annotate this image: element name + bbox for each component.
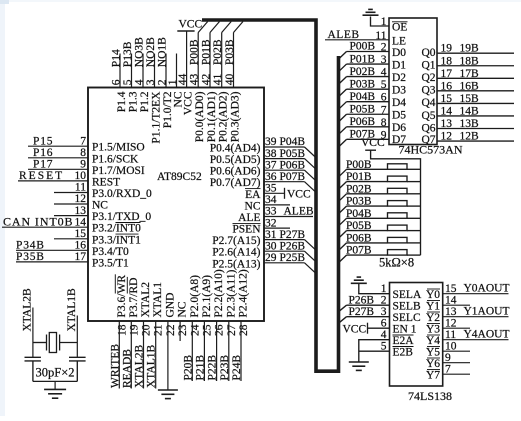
wire U1 pin 17: [16, 261, 88, 263]
bus entry P04B: [305, 147, 316, 158]
svg-text:Y4AOUT: Y4AOUT: [464, 329, 510, 341]
ground at U3 E2A E2B: [349, 362, 369, 370]
svg-text:P03B: P03B: [350, 78, 376, 90]
svg-text:P02B: P02B: [346, 183, 372, 195]
svg-text:6: 6: [111, 79, 123, 85]
svg-text:P27B: P27B: [280, 229, 306, 241]
capacitor C1 30pF: [25, 357, 41, 381]
svg-text:12: 12: [441, 131, 453, 143]
svg-text:NC: NC: [245, 200, 261, 212]
resistor R8 row P07B: [339, 245, 420, 263]
svg-text:P17: P17: [33, 159, 53, 171]
bus entry P26B: [305, 251, 316, 262]
svg-text:P06B: P06B: [280, 159, 306, 171]
svg-text:SELB: SELB: [393, 301, 421, 313]
wire U3 output Y1: [443, 304, 470, 306]
overline Y4: [427, 334, 440, 336]
wire U2 D2 input P02B: [339, 66, 389, 84]
overline Y0: [427, 288, 440, 290]
svg-text:GND: GND: [164, 293, 176, 318]
ground at U2 OE: [363, 9, 379, 15]
wire U1 bottom pin 26: [216, 321, 218, 381]
svg-text:P1.4: P1.4: [116, 91, 128, 112]
svg-text:VCC: VCC: [287, 189, 311, 201]
VCC T-bar resistor rail: [365, 149, 376, 151]
svg-text:P1.1/T2EX: P1.1/T2EX: [151, 91, 163, 144]
wire U1 pin 44 VCC: [186, 31, 188, 88]
svg-text:5: 5: [381, 79, 387, 91]
svg-text:D0: D0: [392, 47, 406, 59]
svg-text:P34B: P34B: [16, 240, 45, 252]
wire U1 top pin 4: [142, 54, 144, 88]
svg-text:P03B: P03B: [346, 196, 372, 208]
svg-text:SELC: SELC: [393, 312, 421, 324]
svg-text:Y5: Y5: [426, 347, 440, 359]
wire XTAL1B down: [76, 316, 78, 358]
svg-text:D2: D2: [392, 72, 406, 84]
overline Y6: [427, 357, 440, 359]
svg-text:ALEB: ALEB: [284, 206, 314, 218]
svg-text:P0.2(AD2): P0.2(AD2): [218, 91, 230, 142]
svg-text:RESET: RESET: [19, 170, 64, 182]
svg-text:13: 13: [441, 118, 453, 130]
svg-text:Q0: Q0: [421, 47, 435, 59]
svg-text:17: 17: [441, 68, 453, 80]
svg-text:VCC: VCC: [183, 91, 195, 115]
svg-text:D3: D3: [392, 85, 406, 97]
svg-text:Y2: Y2: [426, 312, 440, 324]
svg-text:22: 22: [165, 324, 177, 336]
wire U1 top pin 3: [154, 54, 156, 88]
bus entry P07B: [305, 182, 316, 193]
svg-text:P2.3(A11): P2.3(A11): [225, 270, 237, 318]
svg-text:16: 16: [441, 80, 453, 92]
svg-text:P0.7(AD7): P0.7(AD7): [210, 177, 261, 189]
svg-text:14B: 14B: [460, 105, 480, 117]
wire U1 pin 15: [54, 238, 88, 240]
svg-text:SELA: SELA: [393, 289, 422, 301]
svg-text:P2.1(A9): P2.1(A9): [201, 275, 213, 318]
svg-text:P0.3(AD3): P0.3(AD3): [230, 91, 242, 142]
resistor R2 row P01B: [339, 171, 420, 189]
svg-text:P3.5/T1: P3.5/T1: [92, 257, 129, 269]
svg-text:Q1: Q1: [421, 60, 435, 72]
svg-text:3: 3: [145, 79, 157, 85]
svg-text:20: 20: [141, 324, 153, 336]
svg-text:P22B: P22B: [207, 355, 219, 381]
svg-text:P00B: P00B: [346, 159, 372, 171]
svg-text:Y0AOUT: Y0AOUT: [464, 283, 510, 295]
svg-text:2: 2: [381, 42, 387, 54]
svg-text:P13B: P13B: [122, 41, 134, 67]
corner mark: [0, 0, 9, 4]
VCC T-bar top: [177, 30, 194, 32]
svg-text:9: 9: [445, 352, 451, 364]
svg-text:9: 9: [80, 159, 86, 171]
svg-text:CAN INT0B: CAN INT0B: [3, 214, 73, 228]
resistor network VCC rail: [371, 150, 421, 255]
resistor R4 row P03B: [339, 196, 420, 214]
svg-text:NC: NC: [92, 200, 108, 212]
svg-text:6: 6: [381, 92, 387, 104]
wire U1 bottom pin 24: [191, 321, 193, 381]
svg-text:P2.7(A15): P2.7(A15): [212, 235, 260, 247]
overline Y7: [427, 369, 440, 371]
resistor R5 row P04B: [339, 208, 420, 226]
wire U1 pin 33 ALE = ALEB: [264, 216, 313, 218]
svg-text:XTAL1: XTAL1: [152, 282, 164, 318]
faint screenshot left edge: [0, 0, 5, 416]
svg-text:P26B: P26B: [349, 294, 375, 306]
wire U2 Q0 output 19B: [437, 43, 514, 55]
stub U1 pin 32: [264, 227, 290, 229]
wire U1 top pin 2: [165, 54, 167, 88]
wire P27B to U3 SELC: [339, 306, 389, 323]
svg-text:24: 24: [189, 324, 201, 336]
svg-text:P14: P14: [111, 49, 123, 67]
svg-text:19: 19: [441, 43, 453, 55]
svg-text:P1.5/MISO: P1.5/MISO: [92, 142, 145, 154]
wire U1 bottom pin 21: [155, 321, 157, 389]
svg-text:READB: READB: [121, 349, 133, 388]
wire U1 pin 14: [2, 226, 88, 228]
wire U2 Q1 output 18B: [437, 55, 514, 67]
svg-text:3: 3: [381, 54, 387, 66]
svg-text:15: 15: [441, 93, 453, 105]
wire U3 output Y6: [443, 362, 470, 364]
svg-text:41: 41: [212, 73, 224, 85]
svg-text:12: 12: [445, 318, 457, 330]
wire U1 pin 11: [54, 192, 88, 194]
svg-text:21: 21: [153, 324, 165, 336]
svg-text:AT89C52: AT89C52: [157, 171, 202, 183]
svg-text:14: 14: [75, 216, 87, 228]
svg-text:D6: D6: [392, 122, 406, 134]
svg-text:P1.3: P1.3: [128, 91, 140, 112]
svg-text:P3.7/RD: P3.7/RD: [128, 278, 140, 318]
svg-text:NO3B: NO3B: [134, 37, 146, 67]
bus entry P02B: [222, 22, 232, 33]
wire U3 pin 1 SELA to ground: [359, 284, 390, 294]
wire U2 D4 input P04B: [339, 91, 389, 109]
bus entry P27B: [305, 240, 316, 251]
svg-text:10: 10: [445, 341, 457, 353]
svg-text:P0.1(AD1): P0.1(AD1): [206, 91, 218, 142]
svg-text:D7: D7: [392, 134, 406, 146]
overline Y5: [427, 346, 440, 348]
overline Y1: [427, 300, 440, 302]
svg-text:17: 17: [75, 251, 87, 263]
svg-text:Y1AOUT: Y1AOUT: [464, 306, 510, 318]
crystal Y1: [33, 333, 77, 353]
svg-text:Y7: Y7: [426, 370, 440, 382]
svg-text:D5: D5: [392, 110, 406, 122]
svg-text:Q7: Q7: [421, 134, 435, 146]
wire U2 D7 input P07B: [339, 129, 389, 147]
wire U1 pin 36 P07B: [264, 181, 305, 183]
bus entry P03B: [234, 22, 244, 33]
svg-text:P0.6(AD6): P0.6(AD6): [210, 166, 261, 178]
svg-text:P02B: P02B: [350, 66, 376, 78]
svg-text:11: 11: [445, 329, 456, 341]
svg-text:P00B: P00B: [189, 39, 201, 65]
wire U2 pin 1 OE to ground: [371, 17, 390, 27]
svg-text:Q5: Q5: [421, 110, 435, 122]
svg-text:P3.3/INT1: P3.3/INT1: [92, 234, 141, 246]
svg-text:28: 28: [238, 324, 250, 336]
svg-text:REST: REST: [92, 176, 120, 188]
svg-text:27: 27: [226, 324, 238, 336]
wire U1 bottom pin 20: [143, 321, 145, 389]
bus entry P06B: [305, 170, 316, 181]
svg-text:P24B: P24B: [231, 355, 243, 381]
wire U2 Q7 output 12B: [437, 131, 514, 143]
svg-text:ALE: ALE: [238, 212, 260, 224]
svg-text:XTAL2B: XTAL2B: [21, 288, 33, 331]
svg-text:P00B: P00B: [350, 41, 376, 53]
wire U2 Q2 output 17B: [437, 68, 514, 80]
svg-text:P21B: P21B: [194, 355, 206, 381]
wire U3 output Y0: [443, 293, 509, 295]
svg-text:5kΩ×8: 5kΩ×8: [379, 256, 414, 270]
svg-text:9: 9: [381, 129, 387, 141]
wire U1 pin 13: [54, 215, 88, 217]
svg-text:P07B: P07B: [350, 129, 376, 141]
overline E2A: [393, 334, 414, 336]
wire U1 top pin 5: [131, 54, 133, 88]
wire U1 top pin 41: [221, 33, 223, 88]
svg-text:19: 19: [128, 324, 140, 336]
wire U2 D3 input P03B: [339, 78, 389, 96]
svg-text:P20B: P20B: [182, 355, 194, 381]
svg-text:Y4: Y4: [426, 335, 440, 347]
overline EA: [245, 188, 261, 190]
wire cap bottoms join: [33, 380, 77, 382]
svg-text:P27B: P27B: [349, 306, 375, 318]
wire U1 pin 31 P27B: [264, 239, 305, 241]
svg-text:VCC: VCC: [179, 19, 203, 31]
svg-text:15B: 15B: [460, 93, 480, 105]
svg-text:15: 15: [445, 283, 457, 295]
svg-text:8: 8: [381, 117, 387, 129]
resistor R7 row P06B: [339, 232, 420, 250]
svg-text:26: 26: [214, 324, 226, 336]
wire U2 Q3 output 16B: [437, 80, 514, 92]
overline WR: [114, 274, 116, 293]
svg-text:LE: LE: [392, 35, 406, 47]
svg-text:P0.5(AD5): P0.5(AD5): [210, 154, 261, 166]
svg-text:12B: 12B: [460, 131, 480, 143]
svg-text:P06B: P06B: [346, 232, 372, 244]
wire U2 Q5 output 14B: [437, 105, 514, 117]
svg-text:74LS138: 74LS138: [408, 389, 452, 403]
wire U1 bottom pin 23: [179, 321, 181, 341]
svg-text:P3.1/TXD_0: P3.1/TXD_0: [92, 211, 151, 223]
svg-text:VCC: VCC: [343, 323, 367, 335]
svg-text:13: 13: [75, 205, 87, 217]
wire U1 top pin 6: [119, 54, 121, 88]
wire U3 output Y4: [443, 339, 509, 341]
svg-text:P07B: P07B: [346, 245, 372, 257]
MCU U1 AT89C52 body: [88, 88, 264, 322]
wire to ground: [54, 381, 56, 389]
svg-text:P1.7/MOSI: P1.7/MOSI: [92, 165, 145, 177]
svg-text:18B: 18B: [460, 55, 480, 67]
wire U1 pin 30 P26B: [264, 250, 305, 252]
svg-text:OE: OE: [392, 22, 407, 34]
decoder U3 74LS138 body: [390, 283, 443, 387]
overline OE: [392, 21, 408, 23]
overline RD: [126, 277, 128, 294]
bus entry P25B: [305, 263, 316, 274]
svg-text:Q4: Q4: [421, 97, 435, 109]
svg-text:Q6: Q6: [421, 122, 435, 134]
wire U3 pins 4,5 E2A E2B to ground: [359, 340, 390, 362]
ground at U3 SELA: [351, 277, 367, 283]
svg-text:P06B: P06B: [350, 116, 376, 128]
resistor R1 row P00B: [339, 159, 420, 177]
bus entry P05B: [305, 159, 316, 170]
svg-text:E2B: E2B: [393, 347, 414, 359]
svg-text:P2.6(A14): P2.6(A14): [212, 247, 260, 259]
wire U1 pin 16: [16, 249, 88, 251]
svg-text:P16: P16: [33, 147, 53, 159]
wire U3 output Y7: [443, 373, 470, 375]
wire U1 pin 9: [28, 168, 88, 170]
svg-text:25: 25: [201, 324, 213, 336]
svg-text:P2.5(A13): P2.5(A13): [212, 258, 260, 270]
svg-text:Y1: Y1: [426, 301, 440, 313]
svg-text:7: 7: [381, 104, 387, 116]
wire U1 top pin 1: [176, 54, 178, 88]
svg-text:P02B: P02B: [212, 39, 224, 65]
svg-text:42: 42: [201, 73, 213, 85]
svg-text:7: 7: [445, 364, 451, 376]
svg-text:EA: EA: [245, 189, 261, 201]
overline E2B: [393, 346, 414, 348]
svg-text:Y0: Y0: [426, 289, 440, 301]
overline INT1: [116, 233, 139, 235]
capacitor C2 30pF: [69, 357, 86, 381]
overline INT0: [116, 222, 141, 224]
wire U1 bottom pin 25: [203, 321, 205, 381]
svg-text:XTAL2: XTAL2: [140, 282, 152, 318]
svg-text:XTAL1B: XTAL1B: [146, 345, 158, 388]
svg-text:EN 1: EN 1: [393, 324, 417, 336]
wire U2 D5 input P05B: [339, 103, 389, 121]
svg-text:P26B: P26B: [280, 240, 306, 252]
svg-text:P04B: P04B: [346, 208, 372, 220]
svg-text:ALEB: ALEB: [328, 29, 360, 41]
wire U2 D1 input P01B: [339, 53, 389, 71]
svg-text:1: 1: [381, 16, 387, 28]
ground at crystal caps: [44, 389, 66, 398]
wire U1 bottom pin 28: [240, 321, 242, 381]
svg-text:43: 43: [189, 73, 201, 85]
wire P26B to U3 SELB: [339, 294, 389, 311]
svg-text:P05B: P05B: [346, 220, 372, 232]
svg-text:19B: 19B: [460, 43, 480, 55]
svg-text:12: 12: [75, 193, 87, 205]
svg-text:NO1B: NO1B: [157, 37, 169, 67]
svg-text:Q2: Q2: [421, 72, 435, 84]
svg-text:13: 13: [445, 306, 457, 318]
svg-text:WRITEB: WRITEB: [109, 344, 121, 388]
overline PSEN: [233, 222, 261, 224]
overline Y2: [427, 311, 440, 313]
svg-text:11: 11: [375, 30, 386, 42]
svg-text:4: 4: [381, 67, 387, 79]
wire U3 output Y5: [443, 350, 470, 352]
wire U1 top pin 42: [209, 33, 211, 88]
svg-text:18: 18: [441, 55, 453, 67]
wire U1 pin 29 P25B: [264, 262, 305, 264]
wire U2 Q4 output 15B: [437, 93, 514, 105]
svg-text:P3.4/T0: P3.4/T0: [92, 246, 129, 258]
svg-text:P3.0/RXD_0: P3.0/RXD_0: [92, 188, 152, 200]
svg-text:P15: P15: [33, 135, 53, 147]
svg-text:4: 4: [134, 79, 146, 85]
svg-text:P01B: P01B: [346, 171, 372, 183]
VCC tick pin 35: [284, 188, 286, 199]
svg-text:14: 14: [445, 295, 457, 307]
svg-text:NO2B: NO2B: [145, 37, 157, 67]
svg-text:7: 7: [80, 135, 86, 147]
wire U1 pin 12: [54, 203, 88, 205]
svg-text:18: 18: [116, 324, 128, 336]
wire U1 pin 35 EA to VCC: [264, 192, 285, 194]
wire U1 bottom pin 27: [228, 321, 230, 381]
ground at U1 pin 22 GND: [158, 390, 178, 399]
svg-text:Q3: Q3: [421, 85, 435, 97]
wire U1 pin 39 P04B: [264, 146, 305, 148]
svg-text:P2.0(A8): P2.0(A8): [189, 275, 201, 318]
svg-text:P2.2(A10): P2.2(A10): [213, 269, 225, 317]
svg-text:E2A: E2A: [393, 335, 415, 347]
svg-text:P01B: P01B: [350, 53, 376, 65]
bus entry P00B: [198, 22, 208, 33]
svg-text:23: 23: [177, 324, 189, 336]
wire U1 bottom pin 18: [118, 321, 120, 389]
svg-text:10: 10: [75, 170, 87, 182]
wire ALEB to U2 LE: [325, 39, 389, 41]
svg-text:P05B: P05B: [350, 103, 376, 115]
svg-text:15: 15: [75, 228, 87, 240]
svg-text:P03B: P03B: [224, 39, 236, 65]
wire U2 Q6 output 13B: [437, 118, 514, 130]
wire U3 output Y2: [443, 316, 509, 318]
svg-text:P23B: P23B: [219, 355, 231, 381]
wire U2 D6 input P06B: [339, 116, 389, 134]
wire U1 pin 7: [28, 145, 88, 147]
svg-text:P0.0(AD0): P0.0(AD0): [194, 91, 206, 142]
bus entry P01B: [210, 22, 220, 33]
wire U1 top pin 43: [197, 33, 199, 88]
svg-text:D1: D1: [392, 59, 406, 71]
svg-text:5: 5: [122, 79, 134, 85]
svg-text:P3.2/INT0: P3.2/INT0: [92, 223, 141, 235]
svg-text:11: 11: [75, 182, 86, 194]
wire U1 top pin 40: [233, 33, 235, 88]
svg-text:Y3: Y3: [426, 324, 440, 336]
svg-text:P04B: P04B: [280, 136, 306, 148]
svg-text:P2.4(A12): P2.4(A12): [238, 269, 250, 317]
wire U1 pin 10: [18, 180, 88, 182]
stub U1 pin 34: [264, 204, 290, 206]
svg-text:P01B: P01B: [201, 39, 213, 65]
svg-text:P07B: P07B: [280, 171, 306, 183]
svg-text:17B: 17B: [460, 68, 480, 80]
